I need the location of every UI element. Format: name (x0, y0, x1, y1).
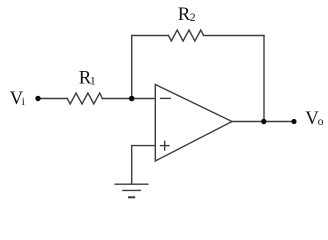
svg-text:R2: R2 (178, 4, 196, 25)
wire Vi to R1 (38, 98, 67, 100)
node Vi terminal (35, 96, 40, 101)
node Vo terminal (291, 119, 296, 124)
node output junction (261, 119, 266, 124)
wire feedback left vertical (131, 36, 133, 99)
op-amp plus pin mark (161, 145, 170, 147)
op-amp U1 (155, 85, 232, 162)
wire R1 to op-amp minus input (102, 98, 155, 100)
wire output (232, 121, 294, 123)
svg-text:R1: R1 (79, 67, 96, 88)
resistor R2 (168, 30, 203, 41)
svg-text:Vi: Vi (10, 88, 26, 109)
op-amp minus pin mark (161, 97, 171, 99)
wire feedback top left (132, 35, 169, 37)
ground (115, 183, 148, 185)
resistor R1 (67, 93, 102, 104)
svg-text:Vo: Vo (305, 108, 323, 129)
node A input junction (129, 96, 135, 102)
wire feedback top right (204, 35, 264, 37)
wire to ground (131, 146, 133, 185)
wire plus input (132, 145, 156, 147)
wire feedback right vertical (263, 36, 265, 122)
